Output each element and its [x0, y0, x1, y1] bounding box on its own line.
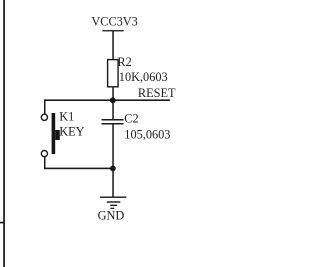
- label GND: [98, 208, 125, 222]
- ground symbol: [100, 197, 126, 210]
- svg-text:C2: C2: [124, 111, 138, 125]
- power symbol VCC3V3: [91, 15, 137, 32]
- svg-text:KEY: KEY: [59, 124, 84, 138]
- svg-text:VCC3V3: VCC3V3: [91, 15, 137, 29]
- svg-text:10K,0603: 10K,0603: [119, 70, 168, 84]
- label C2: [124, 111, 138, 125]
- svg-text:RESET: RESET: [138, 86, 176, 100]
- sheet border tick: [0, 222, 5, 224]
- wire bottom horizontal: [44, 168, 114, 170]
- sheet border left edge: [3, 0, 5, 267]
- wire VCC3V3 stub to resistor: [112, 31, 114, 61]
- key K1 actuator nub: [55, 130, 60, 140]
- svg-text:105,0603: 105,0603: [124, 128, 170, 142]
- resistor R2: [108, 60, 119, 87]
- wire capacitor top lead: [112, 100, 114, 119]
- svg-text:K1: K1: [59, 110, 74, 124]
- junction node bottom: [110, 166, 116, 172]
- capacitor C2 plate top: [102, 119, 124, 121]
- svg-text:GND: GND: [98, 208, 125, 222]
- value 10K,0603: [119, 70, 168, 84]
- key K1 actuator bar: [52, 113, 56, 154]
- wire key bottom stub: [44, 157, 46, 170]
- key K1 pin 2 terminal: [41, 151, 47, 157]
- value 105,0603: [124, 128, 170, 142]
- wire net RESET horizontal: [44, 99, 170, 101]
- svg-text:R2: R2: [117, 55, 131, 69]
- wire capacitor bottom lead: [112, 125, 114, 169]
- wire resistor bottom lead: [112, 87, 114, 100]
- label KEY: [59, 124, 84, 138]
- label R2: [117, 55, 131, 69]
- capacitor C2 plate bottom: [102, 123, 124, 125]
- label K1: [59, 110, 74, 124]
- junction node RESET: [110, 97, 116, 103]
- wire key top stub: [44, 99, 46, 114]
- net label RESET: [138, 86, 176, 100]
- key K1 pin 1 terminal: [41, 114, 47, 120]
- wire ground lead: [112, 168, 114, 197]
